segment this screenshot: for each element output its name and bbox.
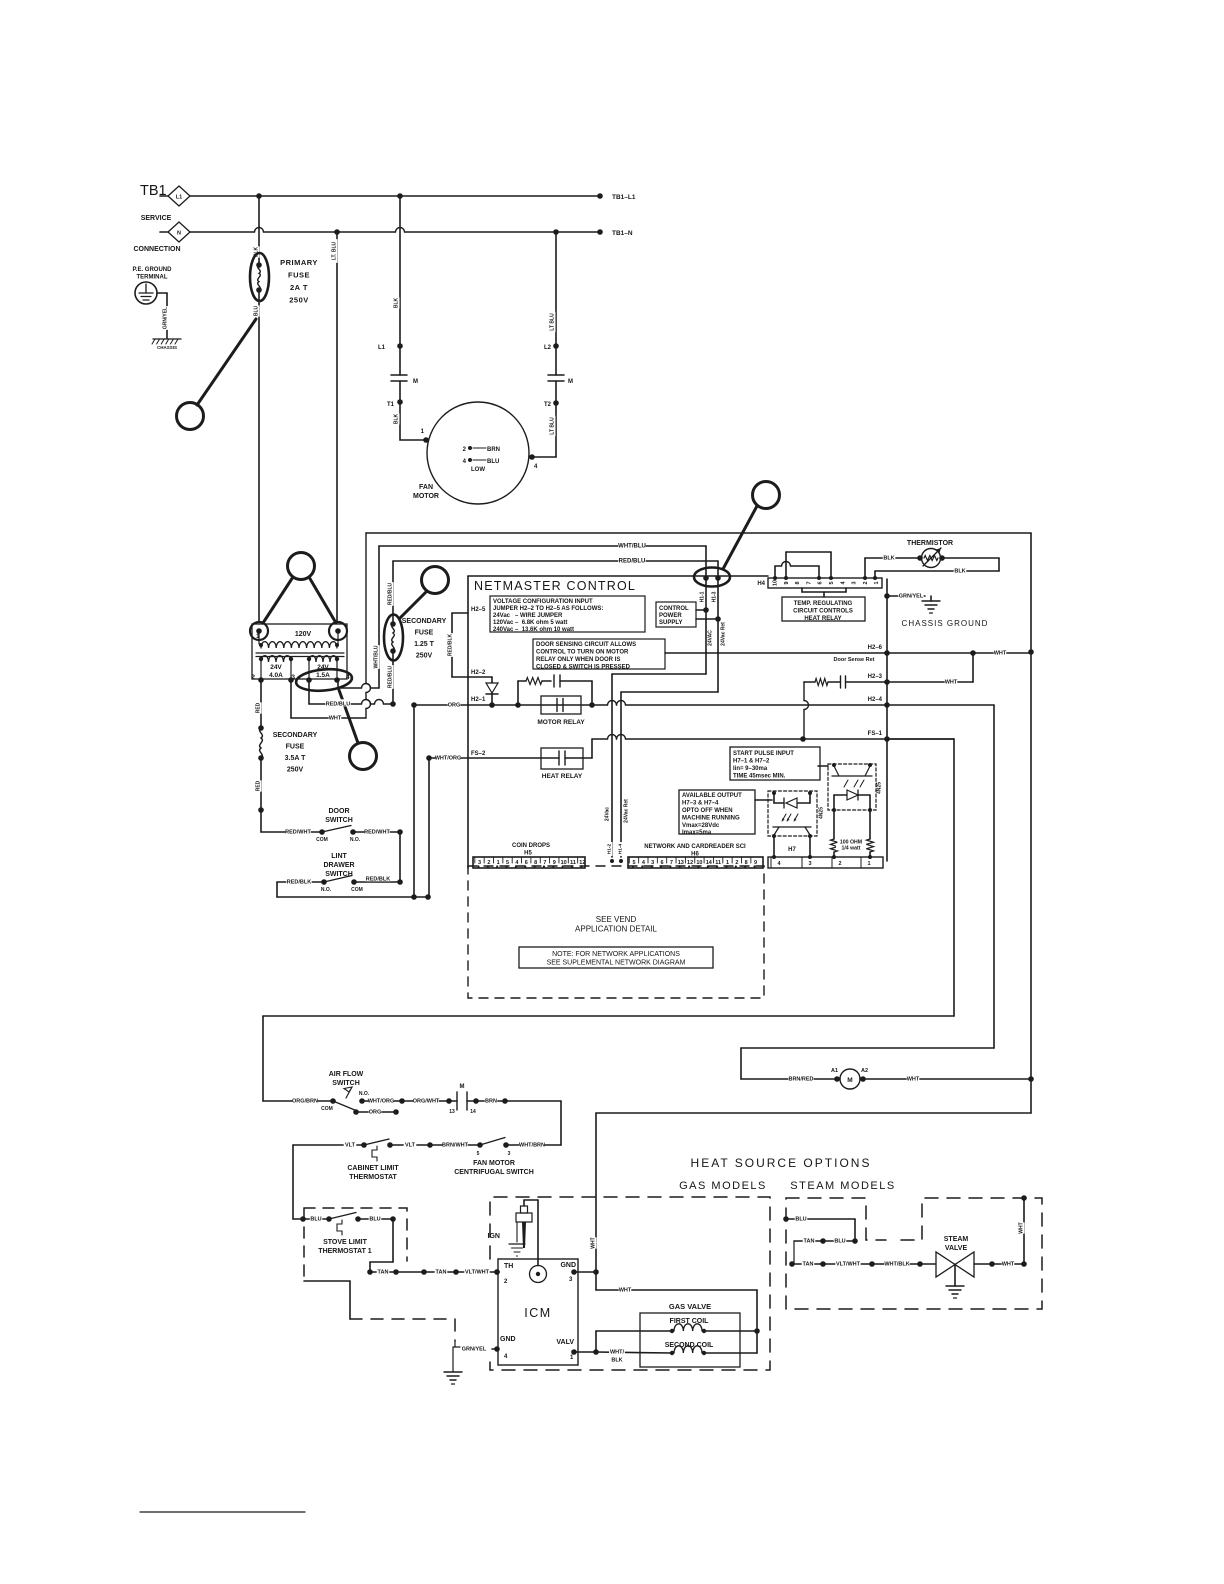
svg-text:LT BLU: LT BLU (550, 417, 556, 435)
svg-text:24Vac – WIRE JUMPER: 24Vac – WIRE JUMPER (493, 613, 563, 619)
svg-text:WHT: WHT (945, 679, 958, 685)
svg-text:N.O.: N.O. (321, 887, 332, 893)
svg-text:6: 6 (525, 860, 528, 866)
svg-text:P.E. GROUND: P.E. GROUND (133, 267, 173, 273)
svg-text:NETWORK AND CARDREADER SCI: NETWORK AND CARDREADER SCI (644, 844, 746, 850)
svg-text:MACHINE RUNNING: MACHINE RUNNING (682, 816, 740, 822)
svg-text:STEAM MODELS: STEAM MODELS (790, 1180, 895, 1192)
svg-text:2: 2 (251, 674, 255, 681)
svg-text:BRN: BRN (487, 447, 500, 453)
svg-text:4.0A: 4.0A (269, 672, 283, 679)
svg-text:VALVE: VALVE (945, 1245, 968, 1252)
svg-text:L1: L1 (378, 345, 386, 351)
svg-text:ORG/BRN: ORG/BRN (292, 1098, 318, 1104)
svg-text:250V: 250V (287, 767, 304, 774)
svg-text:H4: H4 (757, 581, 765, 587)
svg-text:WHT: WHT (907, 1076, 920, 1082)
svg-text:NETMASTER CONTROL: NETMASTER CONTROL (474, 579, 636, 593)
svg-text:SECONDARY: SECONDARY (273, 732, 318, 739)
svg-text:WHT/BLU: WHT/BLU (618, 544, 646, 550)
svg-text:N.O.: N.O. (359, 1091, 370, 1097)
svg-text:H2–2: H2–2 (471, 670, 486, 676)
svg-text:NOTE: FOR NETWORK APPLICATI: NOTE: FOR NETWORK APPLICATIONS (552, 951, 680, 958)
svg-text:BLK: BLK (611, 1357, 622, 1363)
svg-text:GAS MODELS: GAS MODELS (679, 1180, 767, 1192)
svg-text:7: 7 (670, 860, 673, 866)
svg-text:8: 8 (745, 860, 748, 866)
svg-text:BLU: BLU (834, 1238, 845, 1244)
svg-text:SWITCH: SWITCH (325, 871, 353, 878)
svg-text:VLT: VLT (405, 1142, 416, 1148)
svg-text:TEMP. REGULATING: TEMP. REGULATING (794, 601, 853, 607)
svg-text:RED/BLU: RED/BLU (388, 666, 394, 689)
svg-text:WHT: WHT (591, 1237, 597, 1248)
svg-text:CHASSIS GROUND: CHASSIS GROUND (902, 619, 989, 628)
svg-text:LOW: LOW (471, 467, 485, 473)
svg-text:SERVICE: SERVICE (141, 215, 172, 222)
svg-text:H6: H6 (691, 852, 699, 858)
svg-text:1: 1 (726, 860, 729, 866)
svg-text:8: 8 (795, 581, 801, 584)
svg-text:13: 13 (449, 1109, 455, 1115)
svg-text:240Vac – 13.6K ohm 10 wat: 240Vac – 13.6K ohm 10 watt (493, 627, 574, 633)
svg-text:CLOSED & SWITCH IS PRESSED: CLOSED & SWITCH IS PRESSED (536, 665, 631, 671)
svg-text:SEE VEND: SEE VEND (596, 915, 637, 924)
svg-text:H2–1: H2–1 (471, 697, 486, 703)
svg-text:THERMOSTAT 1: THERMOSTAT 1 (318, 1248, 372, 1255)
svg-text:COIN DROPS: COIN DROPS (512, 843, 550, 849)
svg-text:H1-2: H1-2 (607, 843, 613, 854)
svg-text:1/4 watt: 1/4 watt (841, 845, 860, 851)
svg-text:HEAT SOURCE OPTIONS: HEAT SOURCE OPTIONS (691, 1156, 872, 1170)
svg-text:12: 12 (579, 860, 585, 866)
svg-text:H7–1 & H7–2: H7–1 & H7–2 (733, 759, 770, 765)
svg-text:10: 10 (561, 860, 567, 866)
svg-text:ORG/WHT: ORG/WHT (413, 1098, 440, 1104)
svg-text:TIME 45msec MIN.: TIME 45msec MIN. (733, 774, 786, 780)
svg-text:RED/BLK: RED/BLK (448, 634, 454, 657)
svg-text:ORG: ORG (448, 702, 461, 708)
svg-text:6: 6 (661, 860, 664, 866)
svg-text:TB1–N: TB1–N (612, 230, 633, 237)
svg-text:WHT: WHT (994, 650, 1007, 656)
svg-text:A1: A1 (831, 1068, 838, 1074)
svg-text:TAN: TAN (436, 1269, 447, 1275)
svg-text:7: 7 (543, 860, 546, 866)
svg-text:H1-3: H1-3 (712, 591, 718, 602)
svg-text:VOLTAGE CONFIGURATION INPUT: VOLTAGE CONFIGURATION INPUT (493, 599, 593, 605)
svg-text:3: 3 (478, 860, 481, 866)
svg-text:RED/WHT: RED/WHT (364, 829, 390, 835)
svg-text:11: 11 (715, 860, 721, 866)
svg-text:1.25 T: 1.25 T (414, 641, 435, 648)
svg-text:DOOR SENSING CIRCUIT ALLOWS: DOOR SENSING CIRCUIT ALLOWS (536, 642, 636, 648)
svg-text:M: M (847, 1077, 852, 1084)
svg-text:13: 13 (678, 860, 684, 866)
svg-text:OPTO OFF WHEN: OPTO OFF WHEN (682, 808, 733, 814)
svg-text:L2: L2 (544, 345, 552, 351)
svg-text:THERMISTOR: THERMISTOR (907, 540, 953, 547)
svg-text:BLK: BLK (394, 413, 400, 424)
svg-text:SEE SUPLEMENTAL NETWORK DIA: SEE SUPLEMENTAL NETWORK DIAGRAM (547, 960, 686, 967)
svg-text:JUMPER H2–2 TO H2–5 AS FO: JUMPER H2–2 TO H2–5 AS FOLLOWS: (493, 606, 603, 612)
svg-text:WHT: WHT (1019, 1222, 1025, 1233)
svg-text:1: 1 (497, 860, 500, 866)
svg-text:STOVE LIMIT: STOVE LIMIT (323, 1239, 368, 1246)
svg-text:CABINET LIMIT: CABINET LIMIT (347, 1165, 399, 1172)
svg-text:RED/BLU: RED/BLU (326, 701, 350, 707)
svg-text:WHT: WHT (1002, 1261, 1015, 1267)
svg-text:Iin= 9–30ma: Iin= 9–30ma (733, 766, 768, 772)
svg-text:GND: GND (500, 1336, 516, 1343)
svg-text:LT BLU: LT BLU (550, 313, 556, 331)
svg-text:BLU: BLU (795, 1216, 806, 1222)
svg-text:L1: L1 (176, 195, 182, 201)
svg-text:WHT/BLK: WHT/BLK (884, 1261, 909, 1267)
svg-text:3: 3 (508, 1151, 511, 1157)
svg-text:LT. BLU: LT. BLU (332, 241, 338, 260)
svg-text:ORG: ORG (369, 1109, 382, 1115)
svg-text:RED: RED (256, 780, 262, 791)
svg-text:9: 9 (754, 860, 757, 866)
svg-text:M: M (568, 379, 573, 385)
svg-text:24V: 24V (270, 664, 282, 671)
svg-text:BLU: BLU (369, 1216, 380, 1222)
svg-text:5: 5 (477, 1151, 480, 1157)
svg-text:FS–2: FS–2 (471, 751, 486, 757)
svg-text:RED/BLU: RED/BLU (388, 583, 394, 606)
svg-text:24VAC: 24VAC (708, 630, 714, 646)
svg-text:BRN: BRN (485, 1098, 497, 1104)
svg-text:A2: A2 (861, 1068, 868, 1074)
svg-text:RED: RED (256, 702, 262, 713)
svg-text:H2–5: H2–5 (471, 607, 486, 613)
svg-text:N.O.: N.O. (350, 837, 361, 843)
svg-text:POWER: POWER (659, 613, 682, 619)
svg-text:TAN: TAN (804, 1238, 815, 1244)
svg-text:TAN: TAN (378, 1269, 389, 1275)
svg-text:2: 2 (863, 581, 869, 584)
svg-text:COM: COM (351, 887, 363, 893)
svg-text:FS–1: FS–1 (868, 731, 883, 737)
svg-text:1: 1 (874, 581, 880, 584)
svg-text:HEAT RELAY: HEAT RELAY (542, 773, 583, 780)
svg-text:WHT/ORG: WHT/ORG (368, 1098, 395, 1104)
svg-text:BLU: BLU (310, 1216, 321, 1222)
svg-text:6: 6 (818, 581, 824, 584)
svg-text:7: 7 (806, 581, 812, 584)
svg-text:H5: H5 (524, 851, 532, 857)
svg-text:IGN: IGN (488, 1233, 500, 1240)
svg-text:GRN/YEL: GRN/YEL (163, 307, 169, 329)
svg-text:H2–6: H2–6 (868, 645, 883, 651)
svg-text:N: N (177, 231, 181, 237)
svg-text:3.5A T: 3.5A T (285, 755, 306, 762)
svg-text:FUSE: FUSE (415, 630, 434, 637)
svg-text:COM: COM (321, 1106, 333, 1112)
svg-text:RED/BLU: RED/BLU (619, 559, 646, 565)
svg-text:24Vac: 24Vac (605, 807, 611, 821)
svg-text:RELAY ONLY WHEN DOOR IS: RELAY ONLY WHEN DOOR IS (536, 657, 620, 663)
svg-text:H1-4: H1-4 (618, 843, 624, 854)
svg-text:2: 2 (838, 861, 841, 867)
svg-text:HEAT RELAY: HEAT RELAY (804, 616, 841, 622)
svg-text:24Vac Ret: 24Vac Ret (624, 799, 630, 823)
svg-text:BLK: BLK (394, 297, 400, 308)
svg-text:T2: T2 (544, 402, 552, 408)
svg-text:4N25: 4N25 (877, 782, 883, 794)
svg-text:14: 14 (706, 860, 713, 866)
svg-text:WHT: WHT (619, 1287, 632, 1293)
svg-text:VLT/WHT: VLT/WHT (836, 1261, 861, 1267)
svg-text:BRN/WHT: BRN/WHT (442, 1142, 469, 1148)
svg-text:TH: TH (504, 1263, 513, 1270)
svg-text:3: 3 (651, 860, 654, 866)
svg-text:5: 5 (506, 860, 509, 866)
svg-text:SECONDARY: SECONDARY (402, 618, 447, 625)
svg-text:4N25: 4N25 (819, 807, 825, 819)
svg-text:SWITCH: SWITCH (332, 1080, 360, 1087)
svg-text:H2–4: H2–4 (868, 697, 883, 703)
svg-text:SWITCH: SWITCH (325, 817, 353, 824)
svg-text:24Vac Ret: 24Vac Ret (721, 622, 727, 646)
svg-text:14: 14 (470, 1109, 476, 1115)
svg-text:CENTRIFUGAL SWITCH: CENTRIFUGAL SWITCH (454, 1169, 534, 1176)
svg-text:3: 3 (808, 861, 811, 867)
svg-text:VLT/WHT: VLT/WHT (465, 1269, 490, 1275)
svg-text:TERMINAL: TERMINAL (137, 275, 168, 281)
svg-text:VALV: VALV (556, 1339, 574, 1346)
svg-text:WHT/: WHT/ (610, 1349, 625, 1355)
svg-text:5: 5 (632, 860, 635, 866)
svg-text:CIRCUIT CONTROLS: CIRCUIT CONTROLS (793, 609, 853, 615)
svg-text:MOTOR RELAY: MOTOR RELAY (537, 719, 585, 726)
svg-text:MOTOR: MOTOR (413, 493, 439, 500)
svg-text:FAN: FAN (419, 484, 433, 491)
svg-text:SUPPLY: SUPPLY (659, 620, 682, 626)
svg-text:250V: 250V (289, 296, 309, 305)
svg-text:GRN/YEL: GRN/YEL (462, 1346, 487, 1352)
svg-text:DOOR: DOOR (329, 808, 350, 815)
svg-text:12: 12 (687, 860, 693, 866)
svg-text:APPLICATION DETAIL: APPLICATION DETAIL (575, 925, 657, 934)
svg-text:RED/BLK: RED/BLK (366, 876, 390, 882)
svg-text:CHASSIS: CHASSIS (157, 345, 177, 350)
svg-text:2A T: 2A T (290, 283, 308, 292)
svg-text:DRAWER: DRAWER (323, 862, 354, 869)
svg-text:2: 2 (735, 860, 738, 866)
svg-text:VLT: VLT (345, 1142, 356, 1148)
svg-text:RED/BLK: RED/BLK (287, 879, 311, 885)
svg-text:LINT: LINT (331, 853, 347, 860)
svg-text:H7: H7 (788, 847, 796, 853)
svg-text:9: 9 (784, 581, 790, 584)
svg-text:WHT: WHT (329, 715, 342, 721)
svg-text:H1-1: H1-1 (700, 591, 706, 602)
svg-text:AIR FLOW: AIR FLOW (329, 1071, 364, 1078)
svg-text:1.5A: 1.5A (316, 672, 330, 679)
svg-text:11: 11 (570, 860, 576, 866)
svg-text:1: 1 (867, 861, 870, 867)
svg-text:PRIMARY: PRIMARY (280, 258, 318, 267)
svg-text:H2–3: H2–3 (868, 674, 883, 680)
svg-text:GRN/YEL: GRN/YEL (899, 593, 924, 599)
svg-text:FUSE: FUSE (288, 271, 310, 280)
svg-text:WHT/BLU: WHT/BLU (374, 645, 380, 668)
svg-text:10: 10 (696, 860, 702, 866)
svg-text:Imax=5ma: Imax=5ma (682, 830, 712, 836)
svg-text:COM: COM (316, 837, 328, 843)
svg-text:BLK: BLK (883, 555, 894, 561)
svg-text:9: 9 (553, 860, 556, 866)
svg-text:8: 8 (534, 860, 537, 866)
svg-text:STEAM: STEAM (944, 1236, 969, 1243)
svg-text:3: 3 (852, 581, 858, 584)
svg-text:M: M (413, 379, 418, 385)
svg-text:BLK: BLK (954, 568, 965, 574)
svg-text:2: 2 (487, 860, 490, 866)
svg-text:BLU: BLU (487, 459, 499, 465)
svg-text:CONTROL TO TURN ON MOTOR: CONTROL TO TURN ON MOTOR (536, 650, 629, 656)
svg-text:H7–3 & H7–4: H7–3 & H7–4 (682, 801, 719, 807)
svg-text:TAN: TAN (803, 1261, 814, 1267)
svg-text:TB1–L1: TB1–L1 (612, 194, 636, 201)
svg-text:250V: 250V (416, 653, 433, 660)
svg-text:AVAILABLE OUTPUT: AVAILABLE OUTPUT (682, 793, 742, 799)
svg-text:Door Sense Ret: Door Sense Ret (834, 657, 875, 663)
svg-text:10: 10 (773, 580, 779, 586)
svg-text:BRN/RED: BRN/RED (788, 1076, 813, 1082)
svg-text:M: M (460, 1084, 465, 1090)
svg-text:CONNECTION: CONNECTION (133, 246, 180, 253)
svg-text:FAN MOTOR: FAN MOTOR (473, 1160, 515, 1167)
svg-text:CONTROL: CONTROL (659, 606, 689, 612)
svg-text:FUSE: FUSE (286, 744, 305, 751)
svg-text:5: 5 (829, 581, 835, 584)
svg-text:Vmax=28Vdc: Vmax=28Vdc (682, 823, 720, 829)
svg-text:THERMOSTAT: THERMOSTAT (349, 1174, 397, 1181)
svg-text:WHT/ORG: WHT/ORG (435, 755, 462, 761)
svg-text:120Vac – 6.8K ohm 5 watt: 120Vac – 6.8K ohm 5 watt (493, 620, 567, 626)
svg-text:GAS VALVE: GAS VALVE (669, 1302, 711, 1311)
svg-text:WHT/BRN: WHT/BRN (519, 1142, 545, 1148)
svg-text:START PULSE INPUT: START PULSE INPUT (733, 751, 794, 757)
svg-text:ICM: ICM (524, 1306, 551, 1320)
svg-text:RED/WHT: RED/WHT (285, 829, 311, 835)
svg-text:120V: 120V (295, 631, 312, 638)
svg-text:BLU: BLU (254, 305, 260, 316)
svg-text:GND: GND (560, 1262, 576, 1269)
svg-text:T1: T1 (387, 402, 395, 408)
